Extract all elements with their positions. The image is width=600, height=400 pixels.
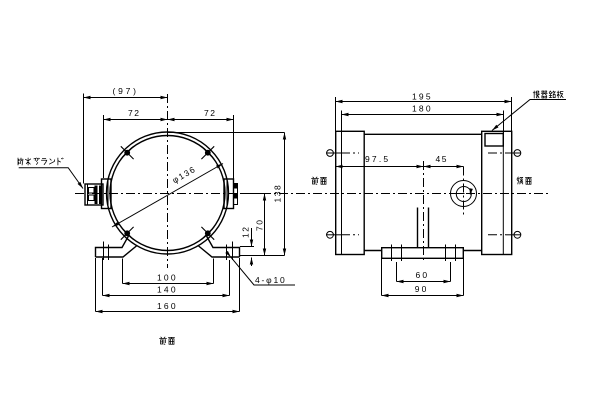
outer circle (flange rim phi136) xyxy=(107,132,229,254)
dimension phi136 diagonal xyxy=(111,162,224,228)
svg-text:45: 45 xyxy=(436,154,448,164)
kanji ki (machine) xyxy=(533,91,539,98)
svg-text:4-φ10: 4-φ10 xyxy=(255,275,287,285)
dimension 45 xyxy=(424,154,464,168)
bolt lower on front flange xyxy=(326,231,359,238)
svg-text:(97): (97) xyxy=(113,86,139,96)
vertical centerline of foot xyxy=(423,161,425,262)
waterproof cable gland body xyxy=(85,184,103,205)
label kiki meiban (equipment nameplate) leader xyxy=(491,100,566,132)
rear flange (right) xyxy=(482,131,512,254)
svg-text:180: 180 xyxy=(412,104,433,114)
svg-text:195: 195 xyxy=(412,92,433,102)
left foot xyxy=(96,236,138,257)
drain plug circle inner xyxy=(456,187,471,202)
inner circle (body) xyxy=(110,136,225,251)
foot slot lines left xyxy=(392,245,402,262)
svg-text:72: 72 xyxy=(128,108,140,118)
bolt lower-right xyxy=(201,227,214,240)
left foot slot hole xyxy=(104,242,109,261)
left side tab (clamp lug) xyxy=(102,179,112,209)
dimension (97) xyxy=(84,86,168,184)
dimension 97.5 xyxy=(336,154,424,168)
svg-text:72: 72 xyxy=(204,108,216,118)
dimension 90 xyxy=(382,259,464,297)
drain plug vertical centerline xyxy=(463,167,465,216)
dimension 72 right xyxy=(168,108,234,180)
bolt upper-right xyxy=(201,146,214,159)
svg-text:70: 70 xyxy=(255,219,265,231)
kanji bou xyxy=(18,158,23,165)
side view label ushiro (rear) xyxy=(517,177,523,184)
dimension 140 xyxy=(103,258,230,297)
kana ra xyxy=(41,158,46,164)
dimension 100 xyxy=(123,259,214,286)
dimension 72 left xyxy=(104,108,168,178)
nameplate xyxy=(485,134,503,147)
pedestal gusset plate xyxy=(418,208,429,248)
dimension 160 xyxy=(96,258,240,313)
right foot slot hole xyxy=(227,242,233,261)
front view caption kanji men xyxy=(168,337,174,344)
kanji ban (plate) xyxy=(557,91,563,98)
dimension 195 xyxy=(336,92,512,132)
svg-text:97.5: 97.5 xyxy=(365,154,390,164)
bolt upper on front flange xyxy=(326,150,359,157)
front view caption kanji mae xyxy=(160,337,167,344)
kanji sui xyxy=(25,158,30,165)
dimension 138 xyxy=(168,133,286,256)
right tab bolt serrations xyxy=(234,184,238,205)
dimension 60 xyxy=(397,262,451,283)
kana do xyxy=(58,158,63,165)
svg-text:138: 138 xyxy=(273,184,283,203)
vertical centerline front view xyxy=(167,94,169,268)
bolt lower-left xyxy=(121,227,134,240)
kanji ki (vessel) xyxy=(541,91,547,98)
foot plate side view xyxy=(382,248,464,259)
kana n xyxy=(49,159,54,164)
label bousui gland (waterproof gland) xyxy=(19,168,85,190)
drain plug circle outer xyxy=(451,181,477,207)
body cylinder bottom lines xyxy=(364,250,482,252)
kana gu xyxy=(34,158,40,165)
front flange (left) xyxy=(336,131,365,254)
drain plug arrow tick xyxy=(453,193,465,195)
svg-text:12: 12 xyxy=(241,226,251,238)
svg-text:90: 90 xyxy=(415,284,429,294)
bolt lower on rear flange xyxy=(488,231,521,238)
right foot xyxy=(198,236,240,257)
bolt upper on rear flange xyxy=(488,150,521,157)
right side tab (clamp lug) xyxy=(224,179,234,209)
svg-text:140: 140 xyxy=(157,285,178,295)
body cylinder top line xyxy=(364,133,482,135)
svg-text:60: 60 xyxy=(416,270,430,280)
svg-text:100: 100 xyxy=(157,273,178,283)
dimension 12 (foot plate thickness) xyxy=(240,226,254,266)
dimension 70 xyxy=(240,194,285,256)
side view label mae (front) xyxy=(312,177,319,184)
horizontal centerline (main axis through both views) xyxy=(75,193,549,195)
leader 4-phi10 xyxy=(225,251,295,285)
foot slot lines right xyxy=(446,245,456,262)
kanji mei (inscription) xyxy=(549,91,555,98)
svg-text:160: 160 xyxy=(157,301,178,311)
bolt upper-left xyxy=(121,146,134,159)
dimension 180 xyxy=(342,104,504,134)
